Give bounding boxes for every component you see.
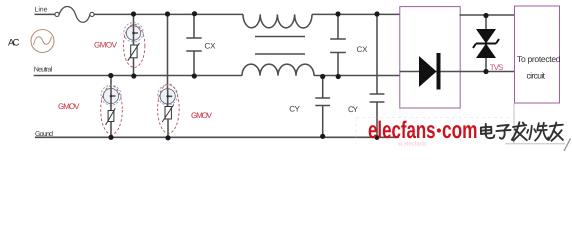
- varistor RV1 body: [131, 45, 137, 58]
- wire Neutral left segment: [34, 75, 242, 77]
- wire Line to choke: [94, 13, 243, 15]
- capacitor CX2 wire bottom: [337, 53, 339, 76]
- watermark separator dot: [437, 128, 441, 132]
- GMOV3 wire mid: [110, 104, 112, 111]
- GMOV1 blue dashed circle: [124, 23, 143, 42]
- GMOV1 wire top: [133, 14, 135, 26]
- wire top between boxes: [460, 14, 515, 16]
- diode D1 wire: [400, 71, 460, 73]
- svg-text:Neutral: Neutral: [34, 66, 53, 74]
- GMOV1 gas discharge tube circle: [126, 26, 140, 40]
- watermark hanzi dian: [481, 124, 495, 138]
- GMOV3 GDT internals: [111, 89, 116, 104]
- rectifier box U1: [400, 7, 460, 108]
- varistor RV2 body: [165, 107, 171, 120]
- GMOV3 blue dashed circle: [101, 85, 121, 105]
- capacitor CY1 plates: [315, 98, 330, 106]
- diode D1 triangle: [419, 56, 437, 87]
- svg-text:circuit: circuit: [527, 71, 546, 81]
- choke core line lower: [255, 53, 305, 55]
- junction dots on TVS wires: [483, 13, 488, 18]
- capacitor CX2 plates: [330, 39, 346, 53]
- wire Line left segment: [35, 13, 56, 15]
- varistor RV1 diagonal: [128, 43, 140, 61]
- GMOV3 red dashed ellipse: [101, 86, 123, 135]
- svg-text:com: com: [442, 117, 478, 144]
- inductor L2 bottom winding of common-mode choke: [242, 64, 314, 76]
- fuse F1 left terminal circle: [55, 12, 59, 16]
- watermark slash bottom right: [564, 139, 571, 152]
- GMOV3 gas discharge tube circle: [103, 88, 118, 103]
- GMOV3 wire top: [110, 76, 112, 89]
- capacitor CY2 wire bottom: [376, 102, 378, 137]
- fuse F1 right terminal circle: [90, 12, 94, 16]
- TVS D2 bottom triangle: [476, 44, 496, 59]
- capacitor CX1 wire bottom: [193, 51, 195, 76]
- svg-text:CY: CY: [348, 105, 359, 114]
- svg-text:elecfans: elecfans: [368, 117, 436, 144]
- svg-text:TVS: TVS: [490, 63, 504, 72]
- svg-text:w.elecfans: w.elecfans: [397, 141, 426, 148]
- watermark frame right portion: [505, 104, 565, 144]
- varistor RV3 diagonal: [106, 108, 116, 125]
- protected circuit box U2: [515, 6, 560, 103]
- GMOV3 wire bottom: [110, 122, 112, 138]
- watermark hanzi zi: [496, 125, 510, 139]
- wire Ground: [35, 136, 399, 138]
- svg-text:GMOV: GMOV: [191, 111, 213, 120]
- GMOV1 GDT internals: [134, 26, 139, 40]
- watermark hanzi fa: [512, 122, 527, 140]
- svg-text:GMOV: GMOV: [58, 102, 80, 111]
- svg-text:CX: CX: [205, 41, 217, 50]
- watermark hanzi shao: [527, 123, 548, 141]
- diode D1 cathode bar: [437, 53, 441, 90]
- capacitor CX1 plates: [186, 38, 201, 51]
- svg-text:CY: CY: [289, 104, 300, 113]
- wire Line to GMOV2 (crosses Neutral): [167, 14, 169, 89]
- capacitor CY2 wire top (from Line, crosses Neutral): [376, 14, 378, 94]
- junction dots on Neutral: [108, 73, 113, 78]
- svg-text:Line: Line: [35, 6, 48, 14]
- TVS D2 left wing: [473, 44, 476, 49]
- TVS D2 top triangle: [476, 29, 496, 44]
- svg-text:CX: CX: [357, 45, 369, 54]
- capacitor CY2 plates: [370, 94, 385, 102]
- TVS wire vertical: [485, 15, 487, 72]
- svg-text:GMOV: GMOV: [94, 40, 118, 49]
- GMOV2 red dashed ellipse: [158, 84, 180, 133]
- watermark faint dashed frame: [356, 109, 510, 144]
- svg-text:To protected: To protected: [517, 54, 561, 64]
- GMOV2 GDT internals: [168, 89, 173, 104]
- GMOV2 gas discharge tube circle: [160, 89, 175, 104]
- AC source sine: [34, 37, 52, 46]
- varistor RV3 body: [108, 111, 114, 122]
- TVS D2 right wing: [496, 39, 499, 44]
- GMOV2 wire bottom: [167, 119, 169, 137]
- fuse F1 wave: [59, 7, 90, 23]
- GMOV1 wire bottom: [133, 58, 135, 76]
- junction dots on Ground: [108, 135, 113, 140]
- choke core line upper: [255, 36, 305, 38]
- capacitor CX2 wire top: [337, 14, 339, 39]
- capacitor CY1 wire top: [322, 76, 324, 99]
- junction dots on Line: [131, 11, 136, 16]
- wire bottom between boxes: [460, 71, 515, 73]
- TVS D2 center bar: [476, 43, 496, 45]
- GMOV1 wire mid: [133, 40, 135, 45]
- varistor RV2 diagonal: [162, 105, 174, 123]
- watermark hanzi you: [549, 123, 563, 141]
- inductor L1 top winding of common-mode choke: [243, 14, 312, 28]
- capacitor CX1 wire top: [193, 14, 195, 38]
- wire Neutral choke to box: [314, 75, 400, 77]
- capacitor CY1 wire bottom: [322, 106, 324, 138]
- AC source circle: [31, 30, 54, 53]
- GMOV2 wire mid: [167, 104, 169, 107]
- wire Line choke to box: [312, 13, 400, 15]
- GMOV1 red dashed ellipse: [124, 24, 145, 67]
- svg-text:AC: AC: [8, 38, 20, 49]
- GMOV2 blue dashed circle: [158, 85, 178, 105]
